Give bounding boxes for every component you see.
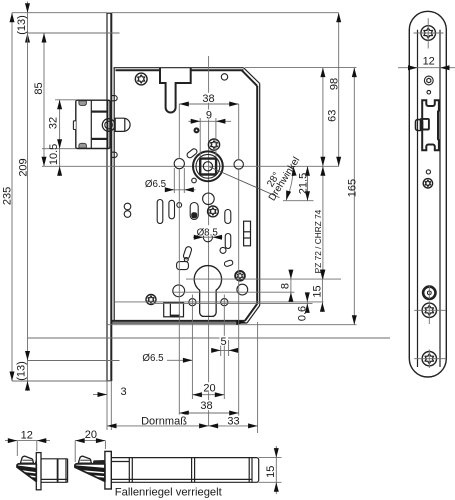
slanted follower line 28deg (210, 167, 280, 198)
dim 12 bottom-left (5, 429, 50, 456)
svg-text:Fallenriegel verriegelt: Fallenriegel verriegelt (115, 487, 223, 499)
pair of small circles at left wall (124, 203, 131, 217)
svg-text:15: 15 (265, 466, 277, 478)
dim 209 (18, 33, 30, 381)
svg-text:9: 9 (206, 109, 212, 121)
ext strip-left vertical (106, 381, 108, 430)
ext line top screw (28, 32, 120, 34)
svg-text:63: 63 (327, 110, 339, 122)
svg-text:32: 32 (48, 117, 60, 129)
label Oe6.5 upper (145, 179, 167, 190)
dim Dornmass (107, 415, 209, 429)
dim 235 (2, 13, 15, 381)
lock case outline (111, 68, 259, 323)
ext line bottom screw (28, 360, 120, 362)
bolt stop box (164, 303, 184, 318)
hole left of cylinder (173, 285, 185, 297)
ext case-back vertical (257, 322, 259, 433)
tiny hole below screw (427, 90, 431, 94)
dim 38 top (179, 93, 238, 107)
follower nut with square spindle hole (193, 151, 223, 181)
svg-text:20: 20 (203, 382, 215, 394)
middle torx with crosshair (414, 286, 445, 324)
ext line 21.5 bottom (283, 200, 314, 202)
pill right lower (225, 234, 231, 249)
circle right of cylinder (237, 284, 248, 295)
dim 8 (279, 270, 293, 302)
bottom view latch bolt hatched (74, 456, 105, 481)
ext cylinder axis vertical is centerline (0, 0, 1, 1)
ext 5-right (228, 340, 230, 356)
dim 20 bottom view (75, 429, 105, 462)
faceplate strip (side view, 235 long) (107, 13, 112, 381)
hole right of nut (234, 160, 243, 169)
svg-text:(13): (13) (16, 361, 28, 381)
torx screw top-left (135, 73, 147, 85)
torx screw above nut (208, 139, 219, 150)
latch aux tab (416, 119, 429, 131)
ext line strike box top (55, 99, 76, 101)
label Fallenriegel verriegelt (115, 487, 223, 499)
ext line case bottom right (107, 324, 357, 326)
label Drehwinkel (267, 155, 303, 203)
svg-text:12: 12 (423, 56, 435, 68)
label Oe8.5 (196, 225, 220, 238)
leader arrow at case bottom chamfer (236, 320, 246, 325)
bottom-left view case stub (41, 459, 68, 483)
profile cylinder hole PZ (194, 266, 221, 317)
label Oe6.5 lower (142, 353, 164, 364)
ext line 0.6 bottom (150, 302, 313, 304)
svg-text:8: 8 (279, 283, 291, 289)
torx screw below nut (208, 206, 219, 217)
svg-text:10.5: 10.5 (48, 144, 60, 165)
ext nut centerline right is shared (0, 0, 1, 1)
ext hole38-right vertical long (238, 169, 240, 417)
svg-text:209: 209 (18, 158, 30, 176)
dim PZ 72 / CHRZ 74 (313, 166, 326, 279)
svg-text:12: 12 (21, 429, 33, 441)
svg-text:5: 5 (220, 336, 226, 348)
torx screw lower-left (146, 295, 156, 305)
ext 5-left (220, 340, 222, 356)
bent lever (change lever) (177, 246, 193, 270)
dim 9 top (188, 109, 231, 124)
ext hole20-left vertical (191, 295, 193, 400)
ext strip-right vertical (110, 381, 112, 430)
torx right of cylinder (235, 271, 245, 281)
svg-text:21.5: 21.5 (297, 173, 309, 194)
label 28deg (265, 171, 282, 190)
cylinder screw head (424, 76, 433, 85)
dim 12 right view (398, 56, 455, 71)
dim 32 (48, 100, 63, 149)
long thin line y338 (28, 337, 390, 339)
dim 21.5 (297, 166, 310, 200)
slot pill near torx (190, 203, 198, 220)
faceplate inner line left (417, 30, 419, 367)
small hole top-right of slot (221, 74, 227, 80)
dim 85 (33, 33, 46, 166)
dim 15 bottom view (259, 446, 282, 494)
ext line bottom faceplate (12, 380, 111, 382)
hole Oe8.5 on centerline (203, 233, 212, 242)
ext square-right vertical (215, 118, 217, 157)
dim 63 (320, 68, 338, 167)
svg-text:20: 20 (85, 429, 97, 441)
bullet pin left of 9-dim (194, 127, 200, 133)
angled slot upper-left of nut (186, 148, 198, 159)
dim Oe6.5 upper arrows (165, 168, 196, 193)
svg-text:3: 3 (120, 386, 126, 398)
dim 10.5 (48, 144, 62, 176)
dim 15 right (311, 270, 325, 312)
cylinder centerline cross (186, 278, 230, 280)
hole on 0.6 line right (221, 299, 228, 306)
bottom-left view latch bolt hatched (16, 456, 36, 481)
dim Oe8.5 arrows (193, 235, 223, 240)
dim 38 bottom (179, 400, 238, 415)
top torx screw with crosshair (414, 18, 444, 48)
svg-text:98: 98 (329, 78, 341, 90)
svg-text:Dornmaß: Dornmaß (141, 415, 187, 427)
ext line top right (from faceplate top) (111, 12, 338, 14)
tiny hole below latch (426, 170, 430, 174)
small circle mid (220, 247, 226, 253)
hole left of nut (Oe6.5) (174, 159, 184, 169)
nut centerline horizontal (42, 165, 339, 167)
rivet tab upper (111, 96, 117, 101)
dim 3 (93, 386, 127, 398)
ext hole-left vertical (178, 104, 180, 159)
svg-text:235: 235 (2, 187, 14, 205)
tiny circle left of pills (177, 203, 182, 208)
bottom torx with crosshair (414, 350, 445, 369)
dim 5 (211, 336, 238, 353)
small pin below-left of nut (192, 178, 197, 183)
svg-text:Ø6.5: Ø6.5 (145, 179, 167, 190)
T-slot cutout at case top (160, 68, 191, 113)
bottom-left view faceplate bar (36, 453, 41, 490)
svg-text:Ø6.5: Ø6.5 (142, 353, 164, 364)
ext hole20-right vertical (223, 295, 225, 400)
ext square-left vertical (199, 118, 201, 157)
bottom view faceplate bar (105, 451, 111, 489)
faceplate front outline (409, 11, 446, 377)
tall slot pill left (157, 200, 163, 224)
slide piece right (244, 221, 251, 246)
dim 20 bottom (192, 382, 224, 397)
ext line cylinder right (230, 278, 342, 280)
screw below latch (423, 179, 432, 188)
svg-text:165: 165 (347, 179, 359, 197)
centerline vertical through nut and cylinder (208, 56, 210, 426)
svg-text:PZ 72 / CHRZ 74: PZ 72 / CHRZ 74 (313, 209, 323, 273)
svg-text:33: 33 (227, 416, 239, 428)
ext line screw 8 right (172, 291, 295, 293)
rivet tab lower (111, 152, 117, 157)
ext hole-right vertical (238, 104, 240, 160)
angle arc 28deg (286, 166, 296, 200)
latch bolt side view (102, 118, 130, 131)
circle below nut (203, 193, 215, 205)
dim 0.6 (297, 292, 310, 321)
dim (13) bottom (16, 361, 30, 391)
svg-text:38: 38 (202, 93, 214, 105)
dim 165 (347, 68, 359, 325)
dim Oe6.5 lower leader (167, 358, 192, 363)
ext hole38-left vertical long (178, 169, 180, 417)
second pill (169, 200, 175, 219)
svg-text:0.6: 0.6 (297, 306, 309, 321)
dim 33 (209, 416, 258, 429)
svg-text:38: 38 (200, 400, 212, 412)
latch front window (422, 100, 439, 150)
strike box housing (73, 100, 110, 148)
cylinder fixing screw thick ring (423, 287, 435, 299)
ext line top faceplate (12, 12, 107, 14)
bottom view lock case from below (111, 458, 258, 483)
ext line strike box bottom (42, 148, 76, 150)
svg-text:(13): (13) (16, 15, 28, 35)
ext line 0.6 top (115, 301, 324, 303)
svg-text:85: 85 (33, 82, 45, 94)
svg-text:15: 15 (311, 285, 323, 297)
dim 98 (329, 13, 342, 167)
hole on 0.6 line left (189, 299, 196, 306)
pill right of Oe8.5 (225, 210, 231, 224)
ext line case top right (245, 67, 357, 69)
small angled pill (224, 260, 234, 267)
faceplate inner line right (439, 30, 441, 367)
dim (13) top (16, 2, 30, 44)
